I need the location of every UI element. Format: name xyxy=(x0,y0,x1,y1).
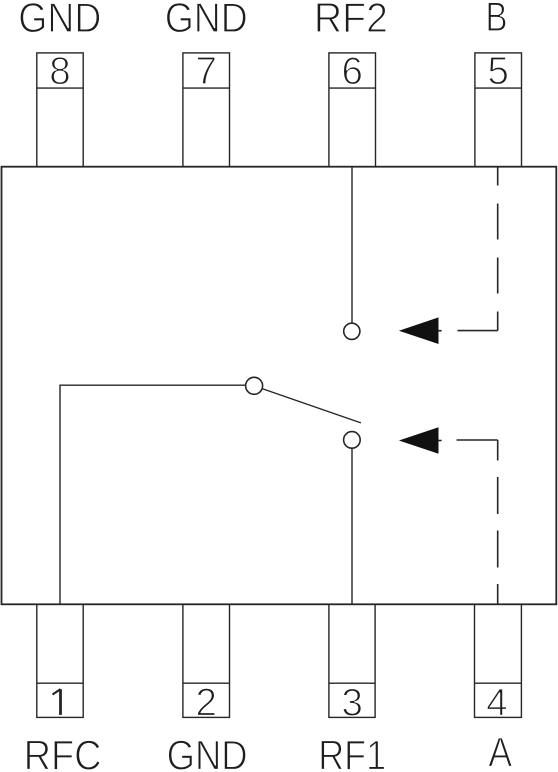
svg-text:A: A xyxy=(488,729,512,772)
svg-text:2: 2 xyxy=(195,682,216,725)
wire RF2 stub from pin 6 xyxy=(351,167,353,323)
wire RFC from pin 1 up and right to pole xyxy=(60,385,246,604)
RF2 throw contact circle xyxy=(344,323,360,339)
control net B: dash stub at arrowhead xyxy=(438,330,442,332)
switch arm wire (pole toward RF1) xyxy=(262,389,361,423)
svg-text:RF1: RF1 xyxy=(318,732,386,772)
pin 8 (GND, top) xyxy=(37,53,83,167)
svg-text:5: 5 xyxy=(487,50,508,93)
pin 7 (GND, top) xyxy=(183,53,230,167)
wire RF1 stub to pin 3 xyxy=(351,449,353,605)
svg-text:8: 8 xyxy=(49,50,70,93)
RF1 throw contact circle xyxy=(344,432,361,449)
IC body U1 xyxy=(2,167,557,605)
pin 6 (RF2, top) xyxy=(329,53,376,167)
pin 3 (RF1, bottom) xyxy=(329,604,375,717)
control net A: dash stub at arrowhead xyxy=(438,440,442,442)
control net A: horizontal segment xyxy=(457,439,498,441)
svg-text:6: 6 xyxy=(341,50,362,93)
svg-text:GND: GND xyxy=(167,732,248,772)
svg-text:4: 4 xyxy=(486,682,507,725)
pole contact circle (RFC common) xyxy=(246,377,263,394)
control net B: horizontal segment xyxy=(458,330,498,332)
pin 1 (RFC, bottom) xyxy=(37,604,83,717)
svg-text:GND: GND xyxy=(18,0,101,41)
svg-text:3: 3 xyxy=(341,682,362,725)
svg-text:RF2: RF2 xyxy=(314,0,388,41)
svg-text:RFC: RFC xyxy=(24,732,102,772)
arrowhead B pointing at RF2 contact xyxy=(399,317,439,344)
svg-text:GND: GND xyxy=(165,0,248,41)
svg-text:7: 7 xyxy=(195,50,216,93)
control net B: dashed line from pin 5 xyxy=(497,168,499,331)
svg-text:B: B xyxy=(486,0,508,40)
pin 1 number xyxy=(53,689,61,715)
control net A: dashed line to pin 4 xyxy=(497,440,499,604)
pin 4 (A, bottom) xyxy=(475,604,522,717)
pin 2 (GND, bottom) xyxy=(183,604,230,717)
arrowhead A pointing at RF1 contact xyxy=(399,427,439,454)
pin 5 (B, top) xyxy=(475,53,522,167)
